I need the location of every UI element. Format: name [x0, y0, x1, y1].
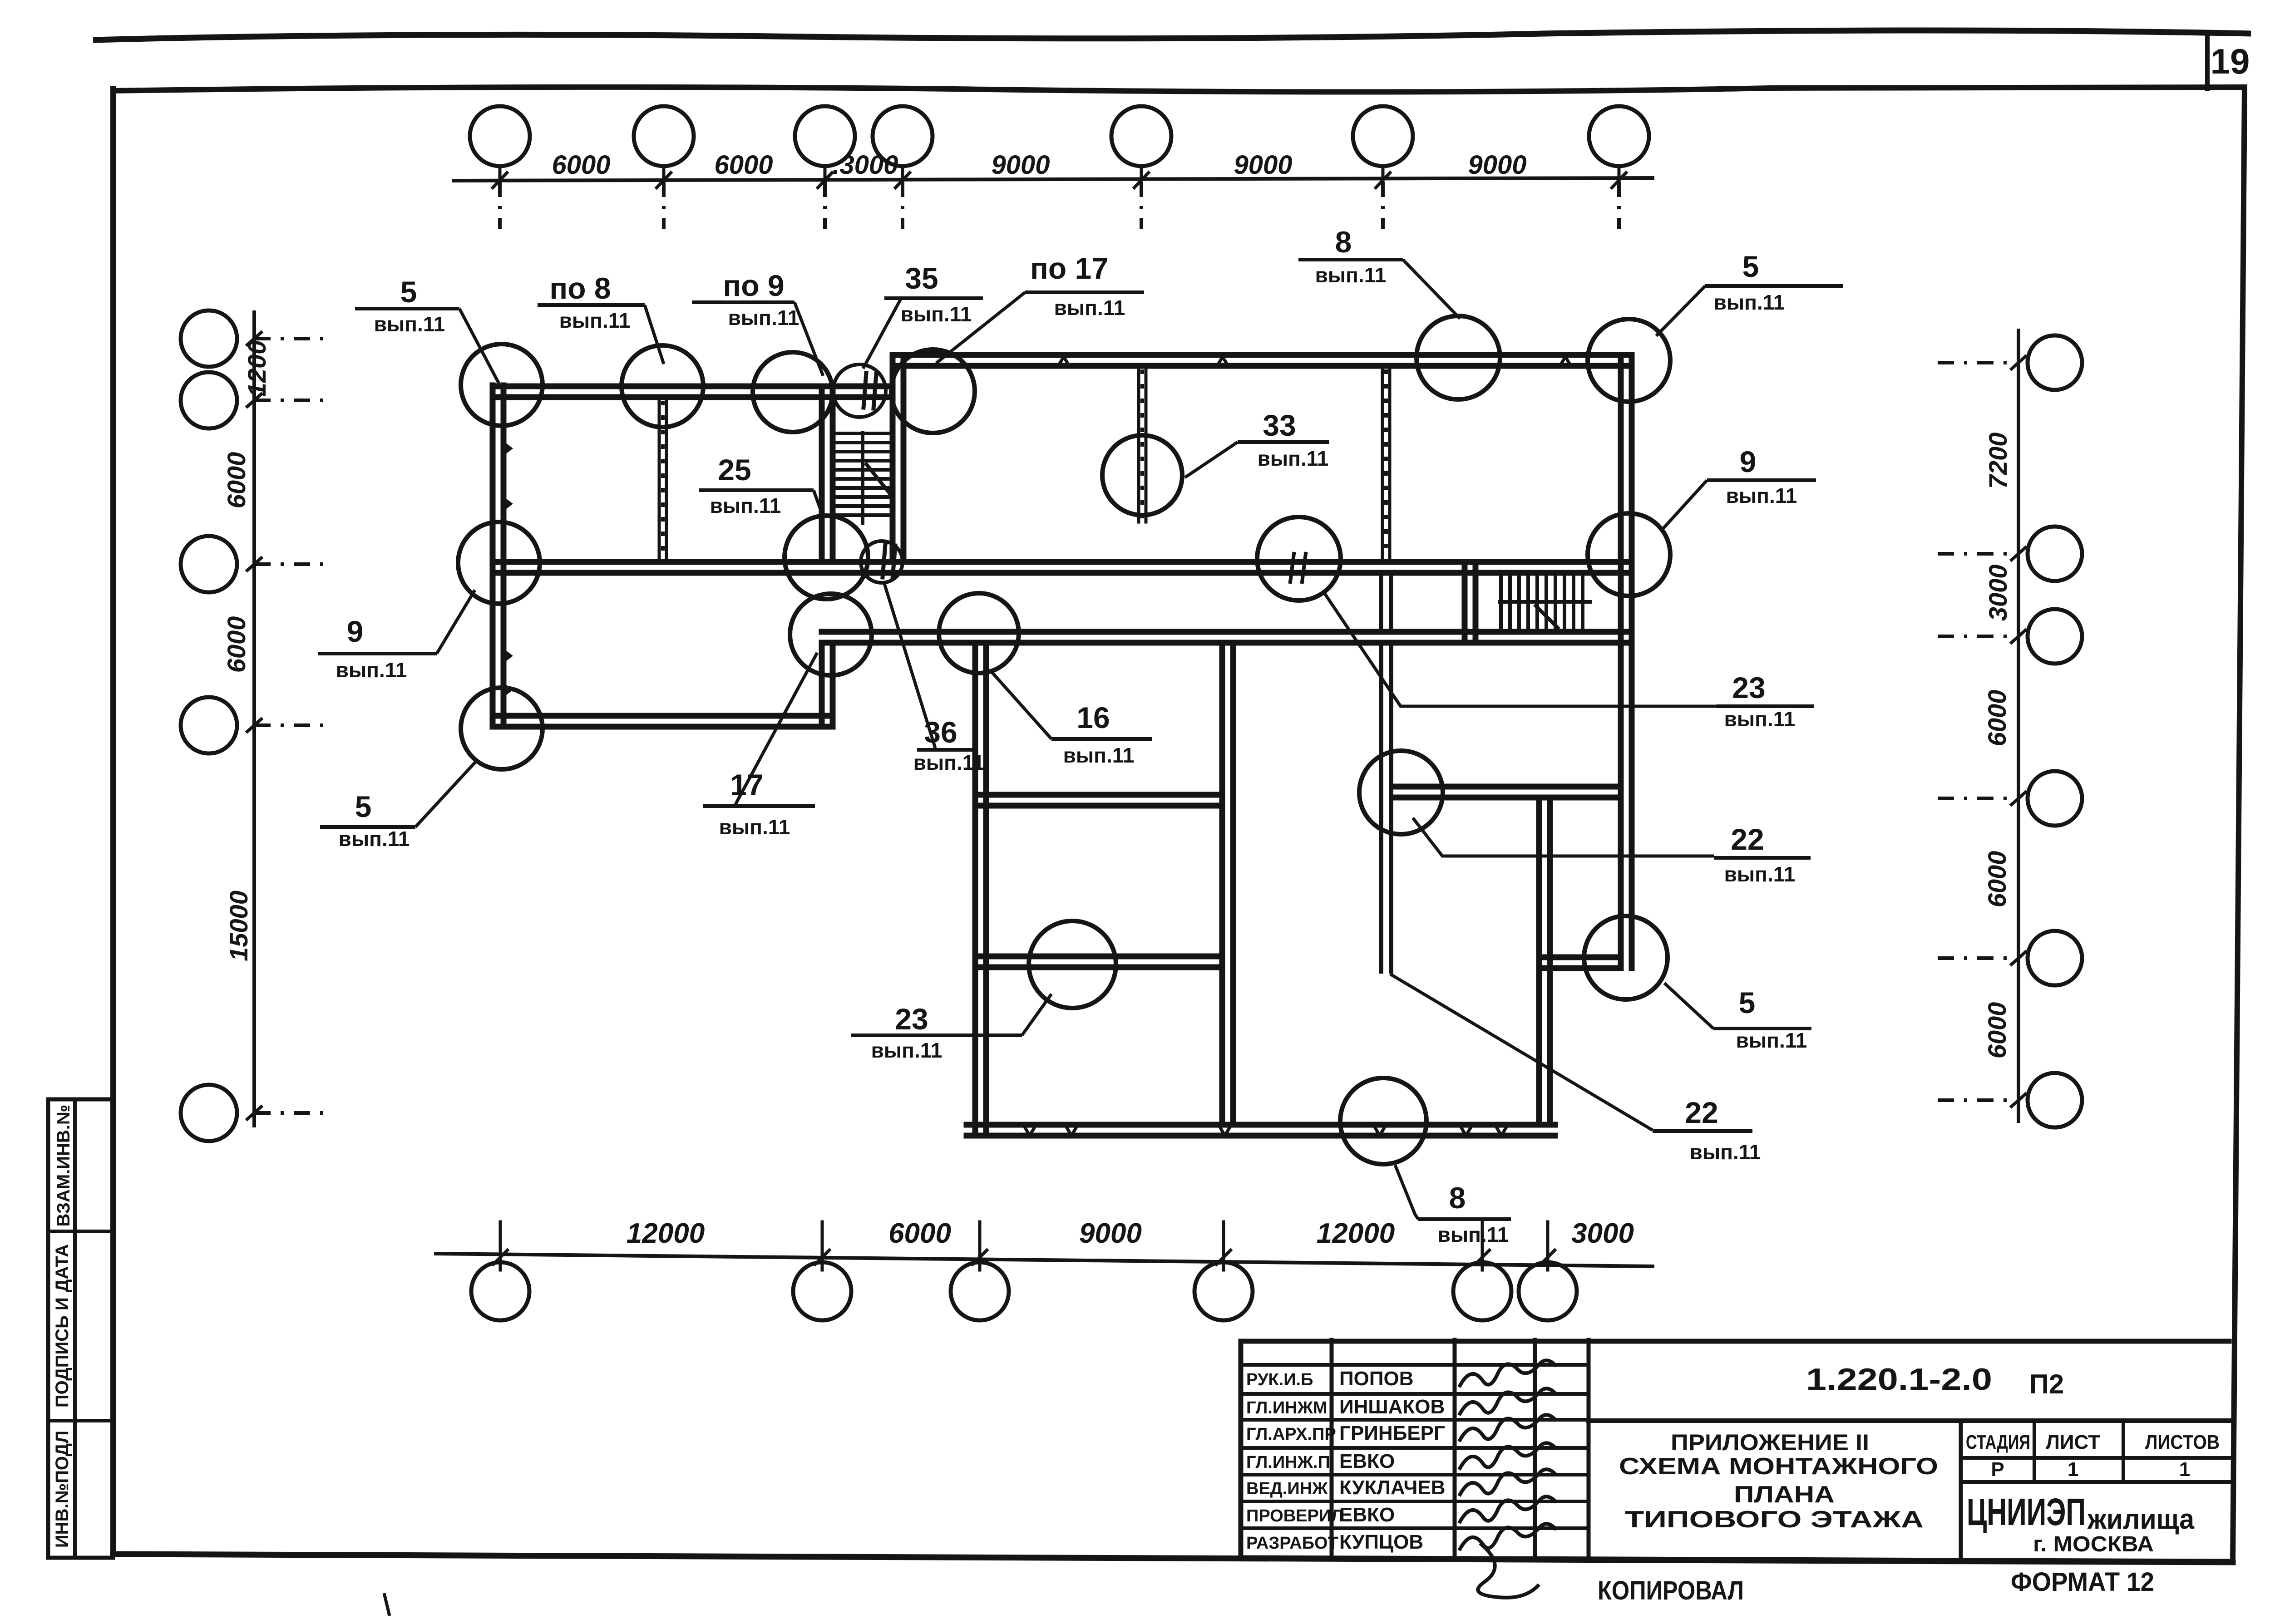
- hatched partition right block 1: [1139, 366, 1146, 522]
- title row labels: [1246, 1370, 1343, 1553]
- grid node circle H: [458, 522, 540, 604]
- svg-text:5: 5: [355, 790, 372, 823]
- label 25: [699, 453, 824, 518]
- right axis row circle 3: [1938, 609, 2082, 664]
- right axis row circle 1: [1938, 335, 2082, 390]
- wall left block south: [493, 716, 833, 727]
- svg-text:22: 22: [1731, 822, 1764, 856]
- svg-text:вып.11: вып.11: [1726, 484, 1797, 507]
- main frame left: [110, 89, 116, 1554]
- svg-text:ПЛАНА: ПЛАНА: [1734, 1481, 1835, 1508]
- bottom axis column circle 4: [1194, 1222, 1253, 1320]
- grid node circle L: [790, 594, 872, 675]
- label по 8: [538, 271, 664, 364]
- label по 17: [936, 251, 1144, 363]
- svg-text:КУКЛАЧЕВ: КУКЛАЧЕВ: [1339, 1476, 1446, 1499]
- label 9 left: [318, 590, 475, 682]
- svg-text:ЛИСТ: ЛИСТ: [2046, 1431, 2100, 1453]
- svg-text:ПОПОВ: ПОПОВ: [1339, 1368, 1413, 1390]
- top axis dimension line: [454, 178, 1653, 181]
- svg-text:25: 25: [718, 453, 751, 487]
- top axis column circle 7: [1589, 106, 1649, 229]
- left axis row circle 2: [181, 372, 328, 428]
- svg-text:12000: 12000: [1317, 1218, 1395, 1249]
- svg-text:РАЗРАБОТ: РАЗРАБОТ: [1246, 1534, 1338, 1553]
- bottom axis column circle 3: [951, 1222, 1009, 1320]
- svg-text:по 17: по 17: [1030, 251, 1108, 285]
- wall lower-left room divider 2: [975, 956, 1222, 967]
- svg-text:вып.11: вып.11: [1690, 1140, 1761, 1164]
- svg-text:вып.11: вып.11: [559, 309, 631, 332]
- label 22 bottom: [1390, 974, 1761, 1164]
- svg-text:5: 5: [400, 275, 417, 309]
- svg-text:9000: 9000: [991, 150, 1050, 180]
- wall stair2 west: [1465, 562, 1475, 643]
- top axis column circle 6: [1353, 106, 1413, 229]
- svg-text:по 8: по 8: [549, 271, 611, 305]
- right axis row circle 2: [1938, 527, 2082, 581]
- svg-text:вып.11: вып.11: [710, 494, 781, 517]
- label 5 top-left: [355, 275, 499, 384]
- wall south-east inner: [1539, 797, 1550, 1125]
- wall lower block partition: [1222, 643, 1233, 1125]
- sidebar box: [48, 1099, 113, 1558]
- svg-text:5: 5: [1742, 250, 1759, 283]
- stray mark: [384, 1593, 390, 1616]
- svg-text:6000: 6000: [714, 150, 773, 180]
- svg-text:1: 1: [2068, 1458, 2078, 1481]
- bottom axis column circle 6: [1519, 1222, 1577, 1320]
- svg-text:вып.11: вып.11: [913, 751, 985, 774]
- svg-text:ЕВКО: ЕВКО: [1339, 1504, 1395, 1526]
- label 33: [1185, 408, 1329, 477]
- grid node circle I: [785, 516, 868, 599]
- wall stair1 west: [822, 386, 833, 562]
- svg-text:23: 23: [895, 1002, 928, 1036]
- bottom axis column circle 1: [471, 1222, 529, 1320]
- grid node circle A: [461, 344, 543, 426]
- svg-text:6000: 6000: [1983, 1002, 2011, 1059]
- right axis row circle 6: [1938, 1073, 2082, 1127]
- svg-text:ВЕД.ИНЖ: ВЕД.ИНЖ: [1246, 1479, 1328, 1498]
- right axis dimension line: [2017, 330, 2020, 1121]
- svg-text:23: 23: [1732, 671, 1765, 704]
- svg-text:вып.11: вып.11: [1724, 862, 1796, 886]
- wall lower-left room divider 1: [975, 795, 1222, 806]
- grid node circle P: [1029, 921, 1116, 1008]
- svg-text:ПОДПИСЬ И ДАТА: ПОДПИСЬ И ДАТА: [52, 1244, 72, 1407]
- main frame bottom: [113, 1554, 2233, 1562]
- main frame right: [2233, 87, 2245, 1562]
- junction marks bottom wall: [1023, 1125, 1508, 1136]
- svg-text:15000: 15000: [224, 891, 253, 961]
- svg-text:9: 9: [347, 615, 364, 648]
- wall partition crossing corridor: [1381, 573, 1391, 632]
- page number box line: [2205, 34, 2210, 89]
- svg-text:вып.11: вып.11: [374, 312, 445, 336]
- svg-text:9000: 9000: [1079, 1218, 1142, 1249]
- svg-text:ФОРМАТ 12: ФОРМАТ 12: [2011, 1567, 2154, 1597]
- svg-text:3000: 3000: [1571, 1218, 1634, 1249]
- svg-text:СТАДИЯ: СТАДИЯ: [1966, 1431, 2030, 1453]
- svg-text:3000: 3000: [1984, 565, 2012, 621]
- svg-text:6000: 6000: [552, 150, 610, 180]
- svg-text:ВЗАМ.ИНВ.№: ВЗАМ.ИНВ.№: [54, 1105, 74, 1227]
- left axis row circle 5: [181, 1085, 328, 1141]
- left axis dimension line: [252, 312, 256, 1126]
- left axis row circle 4: [181, 697, 328, 753]
- grid node circle O: [1359, 751, 1443, 834]
- title block outer: [1241, 1341, 2231, 1561]
- svg-text:6000: 6000: [888, 1218, 951, 1249]
- label 35: [863, 261, 983, 369]
- svg-text:вып.11: вып.11: [1315, 263, 1387, 287]
- svg-text:вып.11: вып.11: [1438, 1223, 1509, 1246]
- svg-text:35: 35: [905, 261, 938, 295]
- label 16: [991, 671, 1152, 767]
- top axis column circle 2: [634, 106, 694, 229]
- wall left block west: [493, 385, 503, 727]
- label 9 right: [1662, 445, 1816, 530]
- svg-text:Р: Р: [1991, 1458, 2004, 1481]
- svg-text:КОПИРОВАЛ: КОПИРОВАЛ: [1598, 1576, 1744, 1605]
- svg-text:5: 5: [1739, 986, 1756, 1019]
- svg-text:КУПЦОВ: КУПЦОВ: [1339, 1531, 1423, 1553]
- label 23 left: [851, 994, 1051, 1062]
- svg-text:ТИПОВОГО ЭТАЖА: ТИПОВОГО ЭТАЖА: [1625, 1506, 1924, 1533]
- title block rows left: [1241, 1365, 1589, 1528]
- svg-text:вып.11: вып.11: [871, 1038, 943, 1062]
- signatures: [1459, 1360, 1556, 1598]
- label 5 bottom-right: [1664, 983, 1811, 1052]
- svg-text:8: 8: [1449, 1181, 1466, 1215]
- main frame top: [113, 87, 2245, 92]
- grid node circle R: [1340, 1078, 1426, 1164]
- svg-text:ПРОВЕРИЛ: ПРОВЕРИЛ: [1246, 1506, 1343, 1526]
- detail circle 35: [833, 364, 886, 417]
- top axis column circle 3: [795, 106, 855, 229]
- left axis row circle 3: [181, 536, 328, 592]
- grid node circle K: [1588, 513, 1670, 596]
- sheet top edge line: [93, 30, 2251, 40]
- svg-text:ГЛ.АРХ.ПР: ГЛ.АРХ.ПР: [1246, 1425, 1336, 1444]
- bottom axis column circle 2: [793, 1222, 851, 1320]
- wall corridor north / middle: [493, 562, 1632, 573]
- svg-text:вып.11: вып.11: [901, 302, 972, 326]
- wall east exterior: [1621, 355, 1632, 968]
- title block columns: [1332, 1340, 1589, 1557]
- wall stair1 east: [893, 355, 903, 562]
- svg-text:г. МОСКВА: г. МОСКВА: [2033, 1532, 2154, 1556]
- svg-text:9000: 9000: [1234, 150, 1292, 180]
- svg-text:П2: П2: [2029, 1369, 2064, 1399]
- grid node circle D: [891, 349, 975, 433]
- label 23 right: [1323, 591, 1814, 731]
- grid node circle F: [1588, 319, 1670, 402]
- grid node circle J: [1257, 517, 1341, 600]
- svg-text:вып.11: вып.11: [719, 815, 790, 839]
- bottom axis column circle 5: [1453, 1222, 1511, 1320]
- label 17: [703, 653, 817, 839]
- wall left jog: [822, 643, 833, 727]
- top axis column circle 5: [1111, 106, 1171, 229]
- right axis row circle 5: [1938, 931, 2082, 985]
- svg-text:жилища: жилища: [2087, 1504, 2194, 1535]
- svg-text:ЕВКО: ЕВКО: [1339, 1450, 1395, 1472]
- svg-text:ГЛ.ИНЖМ: ГЛ.ИНЖМ: [1246, 1398, 1327, 1417]
- label 5 bottom-left: [320, 762, 476, 851]
- grid node circle M: [939, 593, 1019, 673]
- svg-text:22: 22: [1685, 1096, 1718, 1129]
- svg-text:СХЕМА МОНТАЖНОГО: СХЕМА МОНТАЖНОГО: [1619, 1453, 1938, 1480]
- svg-text:ГЛ.ИНЖ.П: ГЛ.ИНЖ.П: [1246, 1453, 1330, 1472]
- junction marks left wall: [503, 441, 513, 697]
- label 22 right: [1413, 818, 1811, 886]
- svg-text:вып.11: вып.11: [1063, 743, 1135, 767]
- wall right block north: [893, 355, 1632, 366]
- svg-text:33: 33: [1263, 408, 1296, 442]
- junction marks top wall: [1058, 357, 1571, 366]
- left axis row circle 1: [181, 310, 328, 367]
- svg-text:вып.11: вып.11: [339, 827, 410, 851]
- label по 9: [692, 269, 823, 376]
- svg-text:вып.11: вып.11: [1724, 707, 1796, 731]
- svg-text:16: 16: [1076, 701, 1110, 734]
- title divider: [1589, 1418, 2229, 1423]
- svg-text:6000: 6000: [222, 452, 251, 509]
- svg-text:вып.11: вып.11: [1054, 296, 1125, 320]
- svg-text:6000: 6000: [1983, 690, 2011, 747]
- stair 1 treads: [835, 433, 891, 523]
- svg-text:1: 1: [2179, 1458, 2190, 1481]
- svg-text:вып.11: вып.11: [1736, 1029, 1807, 1052]
- hatched partition right block 2 upper: [1382, 366, 1390, 562]
- svg-text:ЛИСТОВ: ЛИСТОВ: [2145, 1431, 2220, 1453]
- svg-text:1.220.1-2.0: 1.220.1-2.0: [1806, 1362, 1992, 1397]
- svg-text:8: 8: [1335, 225, 1352, 259]
- svg-text:вып.11: вып.11: [1714, 290, 1785, 314]
- svg-text:9000: 9000: [1468, 150, 1526, 180]
- stair 2 treads: [1500, 574, 1590, 632]
- stage table: [1961, 1421, 2229, 1559]
- label 36: [884, 584, 984, 774]
- wall south-east step: [1539, 957, 1621, 968]
- svg-text:вып.11: вып.11: [1258, 447, 1329, 470]
- wall lower block south: [967, 1125, 1555, 1136]
- middle wall joint ticks at node J: [1290, 554, 1306, 582]
- svg-text:6000: 6000: [222, 616, 251, 673]
- top axis column circle 4: [873, 106, 933, 229]
- svg-text:ГРИНБЕРГ: ГРИНБЕРГ: [1339, 1422, 1445, 1444]
- svg-text:вып.11: вып.11: [728, 306, 799, 330]
- wall lower central partition: [1381, 643, 1391, 971]
- grid node circle E: [1416, 316, 1500, 399]
- grid node circle G: [1102, 435, 1182, 515]
- right axis row circle 4: [1938, 771, 2082, 826]
- label 5 top-right: [1656, 250, 1843, 336]
- svg-text:12000: 12000: [627, 1218, 705, 1249]
- svg-text:19: 19: [2211, 41, 2250, 81]
- label 8 top: [1298, 225, 1460, 319]
- wall corridor south: [822, 632, 1632, 643]
- grid node circle B: [622, 345, 703, 427]
- svg-text:ИНВ.№ПОДЛ: ИНВ.№ПОДЛ: [52, 1431, 72, 1548]
- wall left block north: [493, 386, 893, 397]
- svg-text:.3000: .3000: [832, 150, 898, 180]
- wall lower block west: [975, 643, 986, 1136]
- top axis column circle 1: [470, 106, 530, 229]
- grid node circle Q: [1584, 916, 1668, 999]
- svg-text:ПРИЛОЖЕНИЕ II: ПРИЛОЖЕНИЕ II: [1671, 1430, 1869, 1455]
- svg-text:9: 9: [1740, 445, 1757, 478]
- wall right rooms divider: [1392, 787, 1621, 797]
- bottom axis dimension line: [436, 1254, 1653, 1266]
- svg-text:ИНШАКОВ: ИНШАКОВ: [1339, 1396, 1445, 1418]
- grid node circle N: [461, 688, 543, 769]
- label 8 bottom: [1395, 1165, 1511, 1246]
- svg-text:1200: 1200: [242, 340, 271, 397]
- svg-text:по 9: по 9: [723, 269, 784, 302]
- svg-text:6000: 6000: [1983, 851, 2011, 908]
- hatched partition left block: [659, 397, 666, 562]
- svg-text:ЦНИИЭП: ЦНИИЭП: [1967, 1491, 2086, 1533]
- svg-text:вып.11: вып.11: [336, 658, 407, 682]
- svg-text:РУК.И.Б: РУК.И.Б: [1246, 1370, 1313, 1389]
- grid node circle C: [753, 352, 833, 432]
- svg-text:7200: 7200: [1984, 433, 2012, 489]
- detail circle 36: [861, 541, 903, 583]
